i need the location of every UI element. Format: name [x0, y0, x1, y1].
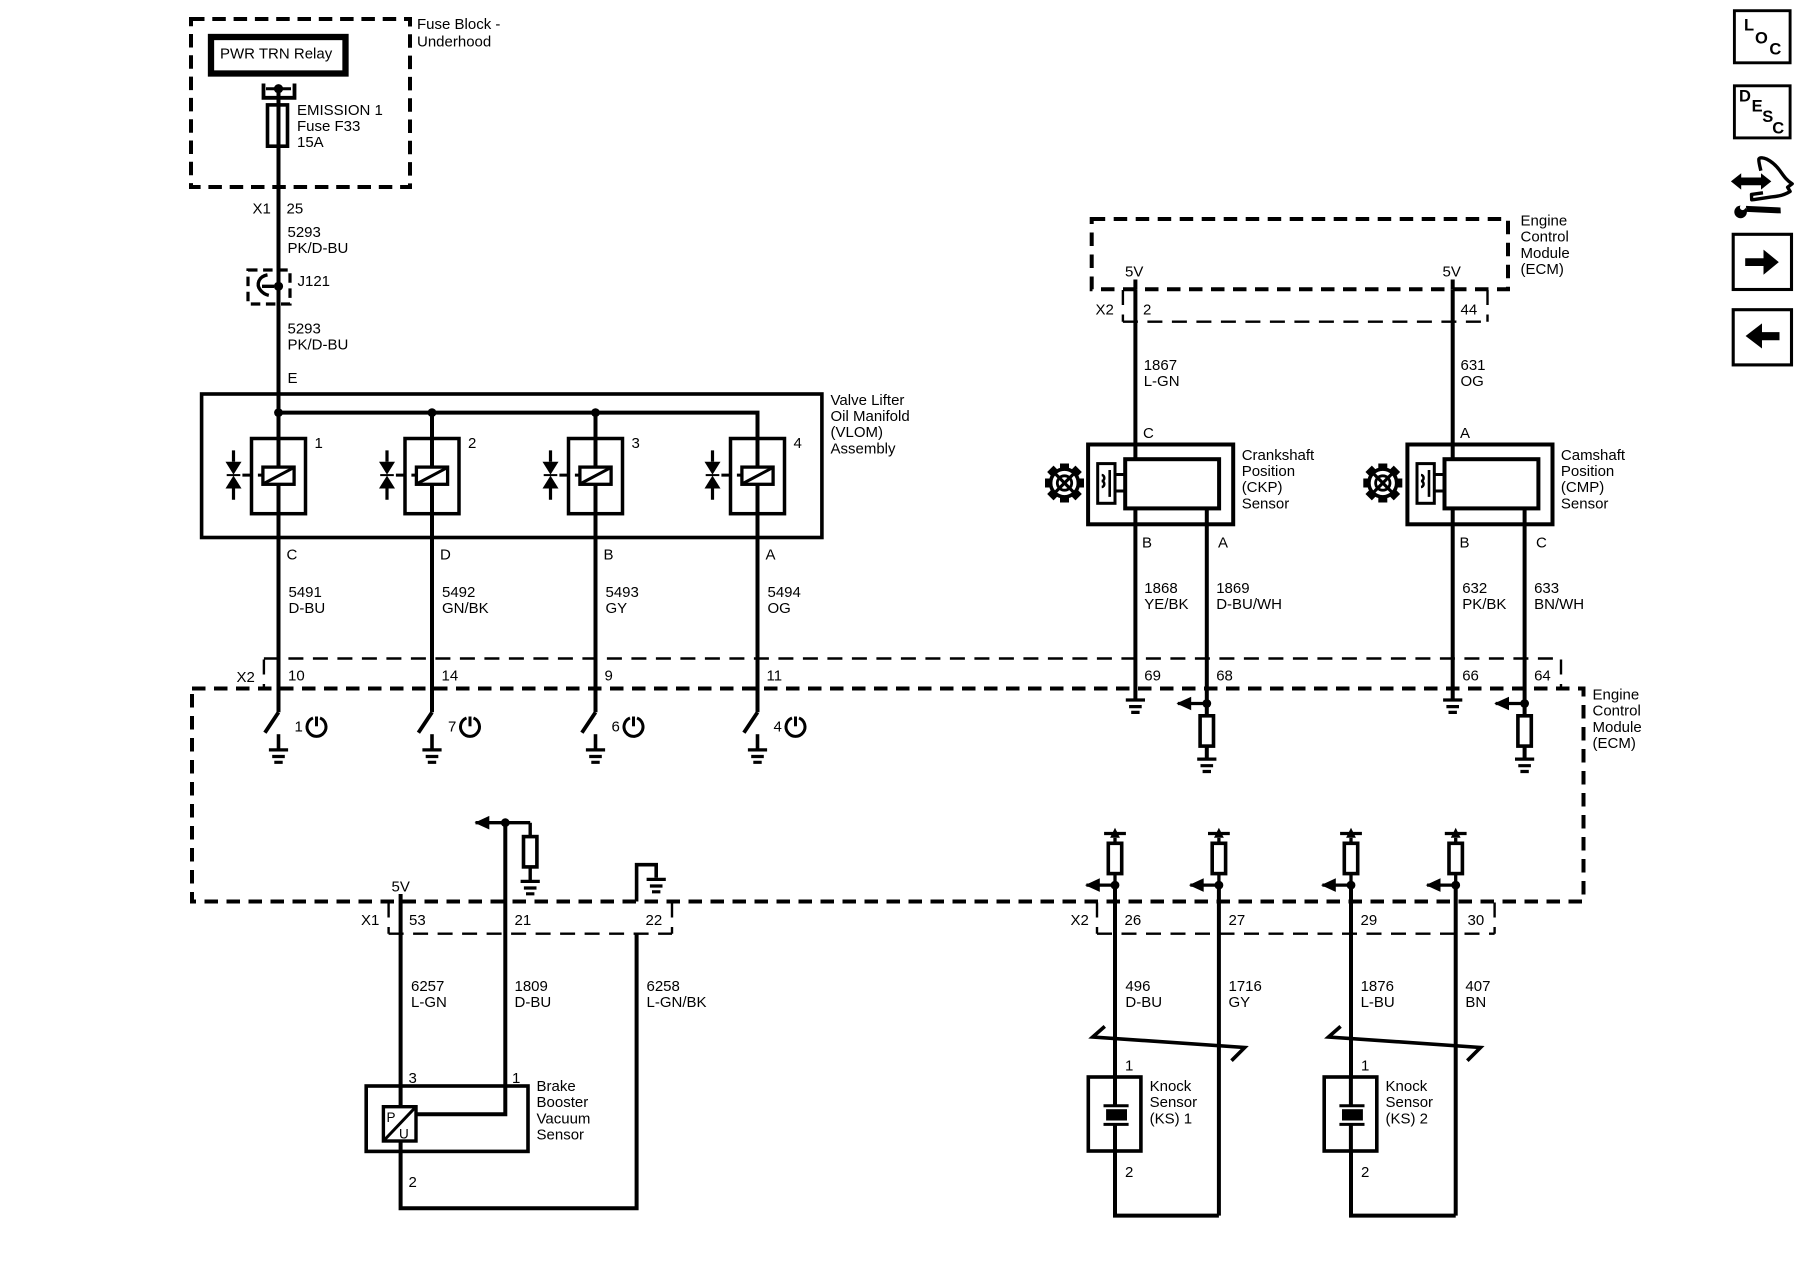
svg-text:2: 2	[468, 435, 476, 452]
svg-text:64: 64	[1534, 668, 1551, 685]
svg-text:X2: X2	[1096, 302, 1114, 319]
vehicle data link icon: double arrow	[1731, 173, 1771, 189]
wire: relay through fuse, X1-25, 5293 circuit down to node E	[277, 91, 281, 413]
KS1 return loop wire	[1115, 1151, 1219, 1216]
svg-text:Sensor: Sensor	[1561, 495, 1609, 512]
svg-text:1: 1	[295, 719, 303, 736]
svg-text:1868: 1868	[1144, 580, 1177, 597]
wire 6258 L-GN/BK	[401, 934, 707, 1208]
svg-text:496: 496	[1125, 978, 1150, 995]
svg-text:(CMP): (CMP)	[1561, 479, 1604, 496]
wire 496 D-BU	[1125, 978, 1162, 1011]
svg-text:Booster: Booster	[537, 1094, 589, 1111]
svg-text:2: 2	[1143, 302, 1151, 319]
low-side driver 6	[582, 712, 643, 762]
svg-text:5491: 5491	[289, 584, 322, 601]
svg-text:5494: 5494	[768, 584, 801, 601]
VLOM assembly box	[202, 394, 822, 538]
svg-text:2: 2	[1125, 1164, 1133, 1181]
svg-text:1: 1	[1361, 1058, 1369, 1075]
svg-text:GY: GY	[1229, 994, 1251, 1011]
svg-text:C: C	[1769, 41, 1781, 59]
svg-text:BN/WH: BN/WH	[1534, 596, 1584, 613]
svg-text:1869: 1869	[1216, 580, 1249, 597]
svg-text:C: C	[287, 547, 298, 564]
solenoid 1	[226, 435, 323, 514]
svg-text:D-BU: D-BU	[515, 994, 552, 1011]
svg-text:BN: BN	[1465, 994, 1486, 1011]
solenoid 4	[705, 435, 802, 514]
svg-text:D: D	[440, 547, 451, 564]
svg-text:E: E	[288, 370, 298, 387]
svg-text:A: A	[1218, 535, 1228, 552]
svg-text:(CKP): (CKP)	[1242, 479, 1283, 496]
connector X2 (ECM bottom)	[1071, 903, 1495, 934]
svg-text:3: 3	[632, 435, 640, 452]
svg-text:X2: X2	[237, 669, 255, 686]
svg-text:5493: 5493	[606, 584, 639, 601]
svg-text:B: B	[1142, 535, 1152, 552]
svg-text:Vacuum: Vacuum	[537, 1110, 591, 1127]
svg-text:6258: 6258	[647, 978, 680, 995]
svg-text:14: 14	[442, 668, 459, 685]
svg-text:21: 21	[515, 912, 532, 929]
ECM internal reference node (wire 21): arrow, resistor, ground	[475, 816, 540, 894]
label: Knock Sensor (KS) 2	[1386, 1078, 1434, 1127]
svg-text:D-BU: D-BU	[289, 600, 326, 617]
svg-text:4: 4	[774, 719, 782, 736]
svg-text:Engine: Engine	[1521, 213, 1568, 230]
svg-text:Control: Control	[1521, 229, 1569, 246]
svg-text:5293: 5293	[288, 321, 321, 338]
svg-text:Sensor: Sensor	[537, 1127, 585, 1144]
wire 5492 GN/BK	[432, 514, 489, 713]
svg-text:Knock: Knock	[1150, 1078, 1192, 1095]
ECM box (lower)	[192, 689, 1584, 902]
wire 633 BN/WH	[1525, 508, 1585, 703]
svg-text:Module: Module	[1593, 719, 1642, 736]
5V supply (pin 44)	[1443, 264, 1461, 290]
svg-text:(KS) 2: (KS) 2	[1386, 1110, 1429, 1127]
wire 1867 L-GN	[1135, 289, 1179, 459]
relay: PWR TRN Relay	[211, 37, 346, 74]
connector X2 (ECM top box)	[1096, 290, 1488, 322]
svg-text:U: U	[399, 1127, 409, 1142]
svg-text:GY: GY	[606, 600, 628, 617]
svg-text:10: 10	[288, 668, 305, 685]
svg-text:407: 407	[1465, 978, 1490, 995]
fuse block - underhood (dashed box)	[191, 19, 410, 187]
svg-text:B: B	[604, 547, 614, 564]
svg-text:1: 1	[1125, 1058, 1133, 1075]
svg-text:1867: 1867	[1144, 357, 1177, 374]
solenoid 2	[379, 435, 476, 514]
svg-text:Camshaft: Camshaft	[1561, 447, 1626, 464]
label: Fuse Block - Underhood	[417, 16, 500, 51]
wire 1868 YE/BK	[1135, 508, 1188, 700]
solenoid 3	[543, 435, 640, 514]
svg-text:29: 29	[1361, 912, 1378, 929]
svg-text:GN/BK: GN/BK	[442, 600, 489, 617]
label: Engine Control Module (ECM) right	[1593, 687, 1642, 753]
svg-text:22: 22	[646, 912, 663, 929]
svg-text:5492: 5492	[442, 584, 475, 601]
svg-text:(KS) 1: (KS) 1	[1150, 1110, 1193, 1127]
wire 407 BN	[1465, 978, 1490, 1011]
svg-text:6: 6	[612, 719, 620, 736]
svg-text:(ECM): (ECM)	[1593, 735, 1636, 752]
svg-text:L-GN/BK: L-GN/BK	[647, 994, 707, 1011]
CMP reluctor gear icon	[1355, 455, 1412, 512]
svg-text:OG: OG	[1461, 373, 1484, 390]
svg-text:4: 4	[794, 435, 802, 452]
svg-text:P: P	[387, 1110, 396, 1125]
label: Knock Sensor (KS) 1	[1150, 1078, 1198, 1127]
svg-text:Sensor: Sensor	[1386, 1094, 1434, 1111]
svg-text:X2: X2	[1071, 912, 1089, 929]
wire 1869 D-BU/WH	[1207, 508, 1282, 703]
svg-text:X1: X1	[361, 912, 379, 929]
camshaft position (CMP) sensor	[1407, 445, 1552, 525]
svg-text:Valve Lifter: Valve Lifter	[831, 392, 905, 409]
connector label X1 25	[253, 201, 304, 218]
svg-text:PWR TRN Relay: PWR TRN Relay	[220, 46, 333, 63]
svg-text:Module: Module	[1521, 245, 1570, 262]
svg-text:26: 26	[1125, 912, 1142, 929]
svg-text:9: 9	[605, 668, 613, 685]
ECM box (top)	[1092, 219, 1508, 289]
wire 5494 OG	[758, 514, 801, 713]
svg-text:Fuse Block -: Fuse Block -	[417, 16, 500, 33]
wire 1876 L-BU	[1361, 978, 1395, 1011]
svg-text:OG: OG	[768, 600, 791, 617]
svg-text:5V: 5V	[1443, 264, 1461, 281]
svg-text:5V: 5V	[1125, 264, 1143, 281]
relay output terminal	[262, 84, 297, 98]
svg-text:Position: Position	[1242, 463, 1295, 480]
vehicle data link icon: silhouette	[1752, 158, 1793, 200]
svg-text:PK/BK: PK/BK	[1462, 596, 1506, 613]
svg-text:30: 30	[1468, 912, 1485, 929]
svg-text:L-BU: L-BU	[1361, 994, 1395, 1011]
svg-text:B: B	[1460, 535, 1470, 552]
svg-text:O: O	[1755, 29, 1768, 47]
wire label 5293 PK/D-BU (upper)	[288, 224, 349, 257]
ECM internal ground (wire 22)	[637, 865, 666, 902]
svg-text:Engine: Engine	[1593, 687, 1640, 704]
wire label 5293 PK/D-BU (lower)	[288, 321, 349, 354]
crankshaft position (CKP) sensor	[1088, 445, 1233, 525]
brake booster vacuum sensor	[366, 1086, 528, 1151]
knock sensor (KS) 2	[1324, 1077, 1377, 1151]
splice J121	[248, 270, 330, 304]
label: Camshaft Position (CMP) Sensor	[1561, 447, 1626, 513]
wire 631 OG	[1453, 289, 1486, 459]
svg-text:66: 66	[1462, 668, 1479, 685]
svg-text:1809: 1809	[515, 978, 548, 995]
label: Crankshaft Position (CKP) Sensor	[1242, 447, 1315, 513]
knock input pull-up (pin 30)	[1426, 828, 1467, 1216]
ground (pin 69)	[1126, 700, 1145, 712]
svg-text:A: A	[1460, 425, 1470, 442]
svg-text:68: 68	[1216, 668, 1233, 685]
svg-text:5293: 5293	[288, 224, 321, 241]
svg-text:Fuse F33: Fuse F33	[297, 118, 360, 135]
KS2 return loop wire	[1351, 1151, 1456, 1216]
svg-text:PK/D-BU: PK/D-BU	[288, 337, 349, 354]
svg-text:D: D	[1739, 87, 1751, 105]
svg-text:2: 2	[1361, 1164, 1369, 1181]
pull-down node (pin 68): arrow, resistor, ground	[1176, 697, 1216, 772]
knock sensor (KS) 1	[1088, 1077, 1141, 1151]
ground (pin 66)	[1443, 700, 1462, 712]
svg-text:Assembly: Assembly	[831, 440, 897, 457]
vehicle data link icon: wrench	[1734, 201, 1781, 219]
svg-text:631: 631	[1461, 357, 1486, 374]
svg-text:L: L	[1744, 17, 1754, 35]
low-side driver 7	[418, 712, 479, 762]
svg-text:2: 2	[409, 1174, 417, 1191]
twisted pair symbol (KS1)	[1093, 1026, 1245, 1060]
knock input pull-up (pin 27)	[1189, 828, 1230, 1216]
svg-text:11: 11	[767, 668, 783, 685]
low-side driver 1	[265, 712, 326, 762]
back button (left arrow)	[1733, 310, 1791, 365]
svg-text:Sensor: Sensor	[1150, 1094, 1198, 1111]
svg-text:27: 27	[1229, 912, 1246, 929]
svg-text:YE/BK: YE/BK	[1144, 596, 1188, 613]
svg-text:6257: 6257	[411, 978, 444, 995]
svg-text:C: C	[1143, 425, 1154, 442]
svg-text:(ECM): (ECM)	[1521, 261, 1564, 278]
svg-text:1: 1	[315, 435, 323, 452]
5V supply label (X1-53)	[392, 878, 410, 901]
label: Engine Control Module (ECM) top	[1521, 213, 1570, 279]
wire 1809 D-BU	[416, 823, 551, 1115]
svg-text:D-BU: D-BU	[1125, 994, 1162, 1011]
label: Valve Lifter Oil Manifold (VLOM) Assembly	[831, 392, 910, 458]
svg-text:7: 7	[448, 719, 456, 736]
svg-text:53: 53	[409, 912, 426, 929]
next button (right arrow)	[1733, 234, 1791, 289]
svg-text:Brake: Brake	[537, 1078, 576, 1095]
DESC button	[1734, 86, 1790, 138]
svg-text:25: 25	[287, 201, 304, 218]
svg-text:633: 633	[1534, 580, 1559, 597]
low-side driver 4	[744, 712, 805, 762]
LOC button	[1734, 11, 1790, 63]
fuse F33 15A	[268, 102, 383, 151]
svg-text:Control: Control	[1593, 703, 1641, 720]
svg-text:632: 632	[1462, 580, 1487, 597]
svg-text:Underhood: Underhood	[417, 34, 491, 51]
svg-text:C: C	[1772, 120, 1784, 138]
svg-text:J121: J121	[298, 273, 331, 290]
svg-text:EMISSION 1: EMISSION 1	[297, 102, 383, 119]
knock input pull-up (pin 29)	[1321, 828, 1362, 1077]
5V supply (pin 2)	[1125, 264, 1143, 290]
svg-text:Crankshaft: Crankshaft	[1242, 447, 1315, 464]
svg-text:1716: 1716	[1229, 978, 1262, 995]
svg-text:(VLOM): (VLOM)	[831, 424, 884, 441]
connector X1 (ECM bottom)	[361, 903, 672, 934]
svg-text:Position: Position	[1561, 463, 1614, 480]
knock input pull-up (pin 26)	[1085, 828, 1126, 1077]
CKP reluctor gear icon	[1036, 455, 1093, 512]
svg-text:15A: 15A	[297, 134, 324, 151]
svg-text:69: 69	[1144, 668, 1161, 685]
wire 5491 D-BU	[279, 514, 326, 713]
svg-text:5V: 5V	[392, 878, 410, 895]
label: Brake Booster Vacuum Sensor	[537, 1078, 591, 1144]
svg-text:PK/D-BU: PK/D-BU	[288, 240, 349, 257]
wire 6257 L-GN	[401, 902, 447, 1107]
svg-text:E: E	[1752, 98, 1763, 116]
svg-text:44: 44	[1461, 302, 1478, 319]
twisted pair symbol (KS2)	[1329, 1026, 1481, 1060]
svg-text:C: C	[1536, 535, 1547, 552]
wire 632 PK/BK	[1453, 508, 1507, 700]
svg-text:Oil Manifold: Oil Manifold	[831, 408, 910, 425]
wire 1716 GY	[1229, 978, 1262, 1011]
svg-text:X1: X1	[253, 201, 271, 218]
pull-down node (pin 64): arrow, resistor, ground	[1494, 697, 1534, 772]
bus wire from node E	[274, 408, 757, 438]
svg-text:A: A	[766, 547, 776, 564]
svg-text:Knock: Knock	[1386, 1078, 1428, 1095]
connector X2 row (ECM top)	[237, 659, 1562, 689]
wire 5493 GY	[596, 514, 639, 713]
svg-text:L-GN: L-GN	[411, 994, 447, 1011]
svg-text:1876: 1876	[1361, 978, 1394, 995]
svg-text:Sensor: Sensor	[1242, 495, 1290, 512]
svg-text:L-GN: L-GN	[1144, 373, 1180, 390]
svg-text:D-BU/WH: D-BU/WH	[1216, 596, 1282, 613]
